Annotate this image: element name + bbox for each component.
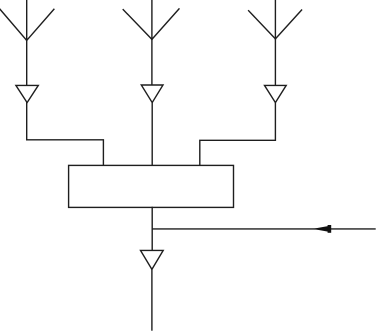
amplifier U3 xyxy=(265,85,287,102)
antenna AT3 xyxy=(249,0,302,39)
arrowhead on LO input wire xyxy=(313,225,332,233)
wire AT1 feed xyxy=(26,40,28,85)
wire LO input (horizontal) xyxy=(152,228,375,230)
wire U1 output to combiner xyxy=(27,103,104,166)
amplifier U2 xyxy=(141,85,163,103)
combiner box U4 xyxy=(69,165,234,207)
wire U3 output to combiner xyxy=(200,103,276,166)
antenna AT1 xyxy=(0,0,54,40)
amplifier U1 xyxy=(16,85,38,102)
amplifier U5 xyxy=(141,250,164,269)
wire U2 output to combiner xyxy=(151,103,153,166)
wire combiner output xyxy=(151,207,153,250)
wire output xyxy=(151,269,153,330)
wire AT3 feed xyxy=(274,39,276,86)
antenna AT2 xyxy=(123,0,179,39)
wire AT2 feed xyxy=(151,39,153,85)
